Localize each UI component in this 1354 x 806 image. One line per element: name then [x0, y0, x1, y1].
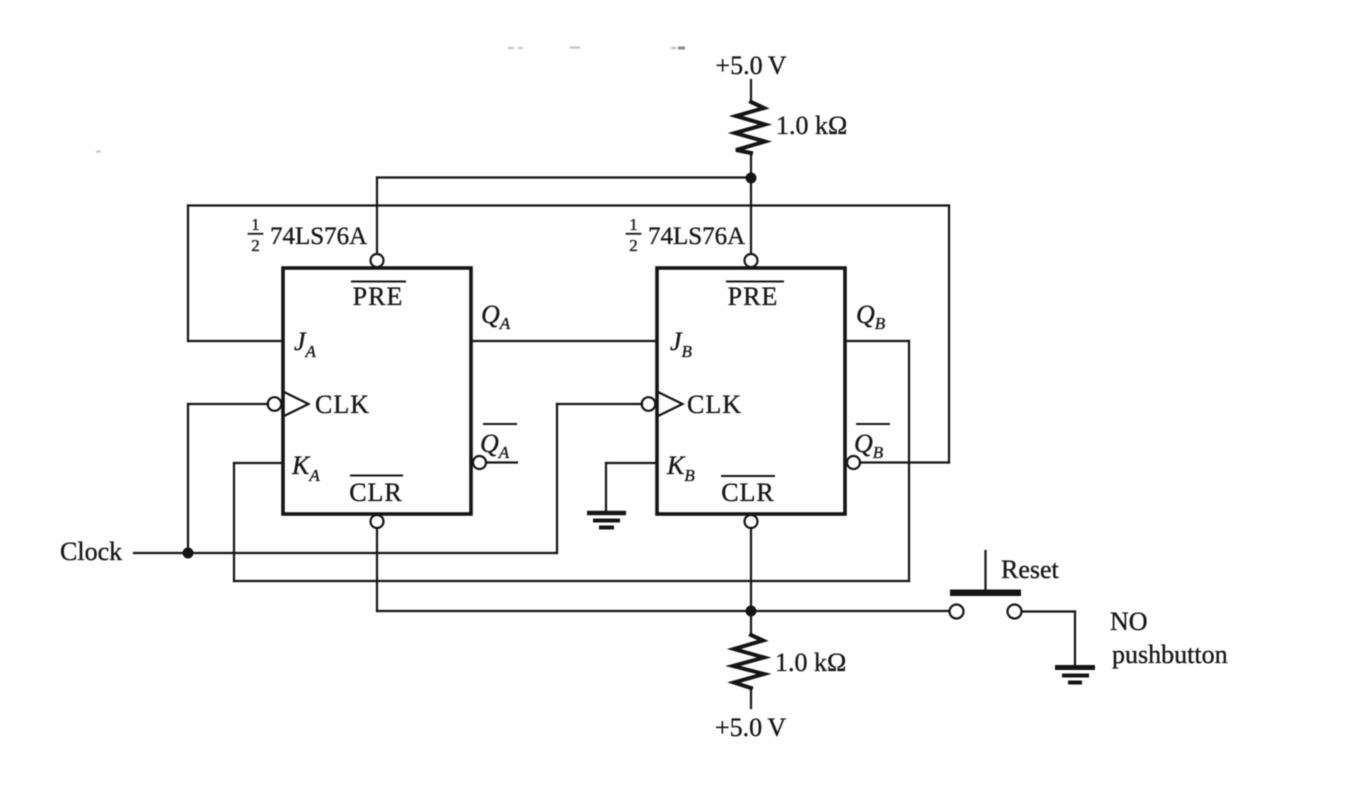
- stub wire QA-bar: [486, 461, 517, 463]
- svg-text:+5.0 V: +5.0 V: [715, 713, 786, 742]
- wire: PRE bus horizontal: [377, 176, 751, 178]
- wire: +5V lead down to R1: [750, 80, 752, 102]
- svg-text:1: 1: [629, 215, 638, 234]
- wire: feedback QB-bar to JA (top run): [188, 204, 949, 206]
- wire: KB to ground: [605, 463, 607, 511]
- pushbutton S1: bar: [950, 590, 1021, 597]
- label CLK U2: [687, 390, 742, 419]
- svg-text:+5.0 V: +5.0 V: [715, 51, 786, 80]
- wire: KA vertical: [233, 463, 235, 581]
- scan artifact marks: [96, 48, 685, 152]
- svg-text:Clock: Clock: [60, 537, 122, 566]
- power label +5.0 V (top): [715, 51, 786, 80]
- label PRE U1: [353, 282, 404, 311]
- svg-text:74LS76A: 74LS76A: [270, 223, 367, 250]
- pushbutton S1: left contact: [950, 605, 964, 619]
- svg-text:pushbutton: pushbutton: [1112, 640, 1228, 669]
- label KA: [291, 451, 320, 485]
- flip-flop U2 box: [657, 268, 845, 514]
- resistor R2: [733, 635, 764, 688]
- bubble CLR U1: [371, 515, 384, 528]
- svg-text:PRE: PRE: [353, 282, 404, 311]
- power label +5.0 V (bottom): [715, 713, 786, 742]
- label 1/2 74LS76A (right): [629, 215, 745, 255]
- wire: R2 lead bottom: [750, 688, 752, 708]
- CLK wedge U1: [285, 393, 309, 416]
- ground GND2: [1055, 668, 1095, 683]
- wire: CLK-A vertical: [187, 404, 189, 553]
- wire: CLK-B vertical: [556, 404, 558, 553]
- wire: CLK-B input: [557, 403, 642, 405]
- wire: JA input: [188, 340, 283, 342]
- wire: QA to JB: [471, 340, 657, 342]
- wire: feedback right vertical: [948, 206, 950, 463]
- label KB: [666, 451, 695, 485]
- label Clock: [60, 537, 122, 566]
- label QA: [481, 300, 511, 333]
- label pushbutton: [1112, 640, 1228, 669]
- junction node clock: [183, 548, 194, 559]
- label NO: [1110, 607, 1148, 636]
- flip-flop U1 box: [283, 268, 471, 514]
- CLK wedge U2: [659, 393, 683, 416]
- label QA-bar: [480, 429, 510, 462]
- wire: QB-bar to feedback vertical: [860, 461, 949, 463]
- wire: CLK-A input: [188, 403, 268, 405]
- wire: Clock horizontal: [134, 552, 557, 554]
- pushbutton S1: actuator: [984, 551, 986, 589]
- svg-text:PRE: PRE: [728, 282, 779, 311]
- wire: down to PRE bubble of U1: [376, 178, 378, 255]
- bubble PRE U2: [745, 254, 758, 267]
- svg-text:CLR: CLR: [349, 478, 403, 507]
- label PRE U2: [728, 282, 779, 311]
- svg-text:2: 2: [251, 236, 260, 255]
- svg-text:Reset: Reset: [1001, 555, 1060, 584]
- wire: QB vertical down: [908, 341, 910, 581]
- CLK bubble U1: [268, 397, 282, 411]
- wire: KA-QB bus: [234, 580, 909, 582]
- svg-text:1: 1: [251, 215, 260, 234]
- svg-text:74LS76A: 74LS76A: [648, 223, 745, 250]
- wire: QB out: [845, 340, 909, 342]
- bubble PRE U1: [371, 254, 384, 267]
- label 1/2 74LS76A (left): [251, 215, 367, 255]
- label JB: [670, 327, 693, 361]
- junction node N1: [746, 173, 757, 184]
- label JA: [294, 327, 317, 361]
- value label R1: 1.0 kOhm: [776, 111, 847, 140]
- pushbutton S1: right contact: [1008, 605, 1022, 619]
- wire: CLR-B vertical: [750, 528, 752, 611]
- CLK bubble U2: [642, 397, 656, 411]
- label QB-bar: [854, 429, 884, 462]
- wire: feedback left vertical: [187, 206, 189, 342]
- bubble QB-bar: [847, 456, 860, 469]
- value label R2: 1.0 kOhm: [775, 648, 846, 677]
- label QB: [856, 300, 886, 333]
- svg-text:1.0 kΩ: 1.0 kΩ: [775, 648, 846, 677]
- label CLK U1: [315, 390, 370, 419]
- wire: CLR bus: [377, 610, 950, 612]
- junction node N2: [746, 606, 757, 617]
- svg-text:1.0 kΩ: 1.0 kΩ: [776, 111, 847, 140]
- label CLR U1: [349, 478, 403, 507]
- wire: KA input: [234, 462, 283, 464]
- svg-text:CLK: CLK: [687, 390, 742, 419]
- wire: CLR-A vertical: [376, 528, 378, 611]
- ground GND1: [587, 513, 626, 528]
- svg-text:CLK: CLK: [315, 390, 370, 419]
- wire: N2 to R2: [750, 611, 752, 635]
- wire: KB input: [606, 462, 657, 464]
- wire: right contact to ground: [1022, 610, 1076, 612]
- wire: node N1 down to PRE bubble of U2: [750, 178, 752, 254]
- label CLR U2: [721, 478, 775, 507]
- svg-text:CLR: CLR: [721, 478, 775, 507]
- label Reset: [1001, 555, 1060, 584]
- wire: R1 to node N1: [750, 153, 752, 178]
- svg-text:NO: NO: [1110, 607, 1148, 636]
- bubble CLR U2: [745, 515, 758, 528]
- svg-text:2: 2: [629, 236, 638, 255]
- wire: ground vertical: [1074, 612, 1076, 666]
- resistor R1: [735, 102, 765, 153]
- bubble QA-bar: [473, 456, 486, 469]
